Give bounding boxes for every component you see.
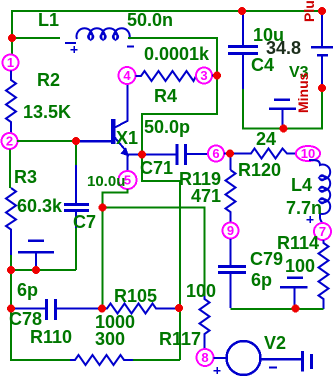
label R114 <box>277 233 319 253</box>
label R119 <box>179 169 221 189</box>
label C4 <box>251 55 274 75</box>
resistor R3 <box>6 150 16 271</box>
svg-text:0.0001k: 0.0001k <box>144 44 210 64</box>
junction dot (242,11) C4 tap <box>238 7 246 15</box>
wire base (blue) <box>76 140 111 143</box>
svg-text:R117: R117 <box>159 329 201 349</box>
junction dot (295.5,308.5) ground tie <box>292 305 300 313</box>
junction dot (36,270) ground tie <box>32 266 40 274</box>
svg-text:4: 4 <box>123 68 131 83</box>
svg-text:100: 100 <box>186 281 216 301</box>
node 5 <box>119 171 137 189</box>
svg-text:10.0u: 10.0u <box>87 173 125 190</box>
label V2 minus mark <box>269 367 277 369</box>
ground symbol near C4 <box>269 100 296 127</box>
svg-text:R110: R110 <box>30 327 72 347</box>
svg-text:50.0n: 50.0n <box>127 10 173 30</box>
svg-text:R114: R114 <box>277 233 319 253</box>
label 10u <box>253 25 284 45</box>
label L1 plus mark <box>71 46 78 53</box>
ground symbol under R3 <box>18 241 54 269</box>
label 7.7n <box>286 198 322 218</box>
label Minus (rotated) <box>295 72 311 113</box>
junction dot (11,270) R3 tee <box>7 266 15 274</box>
svg-text:60.3k: 60.3k <box>17 196 63 216</box>
wire node3 to vertical <box>212 75 217 77</box>
resistor R110 <box>70 355 133 365</box>
label V2 plus mark <box>214 367 221 374</box>
label R2 <box>37 70 60 90</box>
wire node2 to base junction <box>17 140 76 142</box>
junction dot (217,75.5) node3 tie <box>213 72 221 80</box>
node 8 <box>197 349 214 366</box>
label V3 <box>289 64 309 81</box>
resistor R4 <box>136 71 197 81</box>
label R120 <box>238 160 281 180</box>
junction dot (142,154.5) C71 tee <box>138 151 146 159</box>
svg-text:R105: R105 <box>114 286 157 306</box>
svg-text:2: 2 <box>6 134 13 149</box>
node 2 <box>2 133 18 149</box>
wire left drop from top rail <box>11 10 13 55</box>
capacitor C78 <box>11 299 102 320</box>
junction dot (102,308.5) R105 left <box>98 305 106 313</box>
junction dot (76,141) base tee <box>72 137 80 145</box>
label R117 <box>159 329 201 349</box>
svg-text:24: 24 <box>256 129 276 149</box>
label 6p (C79) <box>251 270 272 290</box>
resistor R117 <box>200 296 210 348</box>
label V2 <box>264 333 286 353</box>
svg-text:50.0p: 50.0p <box>144 117 190 137</box>
svg-text:L4: L4 <box>291 175 312 195</box>
resistor R119 <box>226 154 236 223</box>
svg-text:100: 100 <box>285 256 315 276</box>
capacitor C7 <box>64 141 89 270</box>
label 100 (R114) <box>285 256 315 276</box>
svg-text:3: 3 <box>200 68 207 83</box>
battery V3 <box>311 10 333 88</box>
resistor R114 <box>319 240 329 309</box>
label 60.3k <box>17 196 63 216</box>
svg-text:R3: R3 <box>14 167 37 187</box>
label 100 (R117) <box>186 281 216 301</box>
svg-text:6: 6 <box>212 146 219 161</box>
inductor L4 <box>309 160 330 223</box>
svg-text:C71: C71 <box>140 158 173 178</box>
label L4 <box>291 175 312 195</box>
wire C4 bottom loop <box>243 88 322 129</box>
junction dot (12,38) <box>8 34 16 42</box>
svg-text:300: 300 <box>95 329 125 349</box>
svg-text:R4: R4 <box>154 86 177 106</box>
svg-text:7: 7 <box>319 224 326 239</box>
svg-text:X1: X1 <box>116 128 138 148</box>
label 10.0u <box>87 173 125 190</box>
svg-text:10: 10 <box>301 146 315 161</box>
svg-text:C7: C7 <box>73 212 96 232</box>
svg-text:L1: L1 <box>38 10 59 30</box>
wire mid horizontal y=207.5 <box>103 208 205 297</box>
label 13.5K <box>23 102 71 122</box>
junction dot (283.5,128.5) ground tie <box>280 125 288 133</box>
label 50.0n <box>127 10 173 30</box>
svg-text:C4: C4 <box>251 55 274 75</box>
node 7 <box>314 223 331 240</box>
svg-text:6p: 6p <box>17 280 38 300</box>
node 6 <box>208 146 224 162</box>
wire line A lower <box>179 308 181 360</box>
label C78 <box>9 309 42 329</box>
svg-text:V2: V2 <box>264 333 286 353</box>
label X1 <box>116 128 138 148</box>
label 1000 <box>95 312 135 332</box>
label L4 plus mark <box>307 216 314 223</box>
svg-text:8: 8 <box>201 350 208 365</box>
node 1 <box>3 55 19 71</box>
wire left column to C78 row <box>11 270 180 360</box>
wire emitter to C71 row <box>128 154 176 156</box>
resistor R2 <box>6 71 16 134</box>
transistor X1 <box>111 84 129 173</box>
junction dot (322,88) V3 minus <box>318 84 326 92</box>
svg-text:C78: C78 <box>9 309 42 329</box>
label C79 <box>250 249 283 269</box>
label C7 <box>73 212 96 232</box>
junction dot (179,308) R105 right <box>175 304 183 312</box>
label R110 <box>30 327 72 347</box>
capacitor C79 <box>218 239 246 308</box>
ground symbol near R114 <box>280 278 308 307</box>
label R4 <box>154 86 177 106</box>
wire node6 to junction <box>224 153 234 155</box>
resistor R105 <box>102 304 175 314</box>
wire L1 left <box>12 37 60 39</box>
source V2 <box>214 341 312 375</box>
svg-text:C79: C79 <box>250 249 283 269</box>
label R3 <box>14 167 37 187</box>
label Plus (rotated) <box>301 0 317 22</box>
junction dot (102.5,207.5) feedback tee <box>99 204 107 212</box>
svg-text:1: 1 <box>7 55 14 70</box>
svg-text:6p: 6p <box>251 270 272 290</box>
capacitor C71 <box>177 144 208 165</box>
svg-text:9: 9 <box>227 223 234 238</box>
svg-text:7.7n: 7.7n <box>286 198 322 218</box>
resistor R120 <box>230 149 295 159</box>
svg-text:471: 471 <box>191 186 221 206</box>
label R105 <box>114 286 157 306</box>
node 9 <box>223 223 239 239</box>
inductor L1 <box>65 28 130 43</box>
label L1 <box>38 10 59 30</box>
label L1 minus mark <box>127 46 134 48</box>
label 0.0001k <box>144 44 210 64</box>
node 4 <box>119 67 136 84</box>
junction dot (230,153.5) R119 tee <box>226 150 234 158</box>
label C71 <box>140 158 173 178</box>
wire top rail <box>12 10 322 12</box>
label 300 <box>95 329 125 349</box>
capacitor C4 <box>228 10 258 90</box>
junction dot (322,11) V3 tap <box>318 7 326 15</box>
label 50.0p <box>144 117 190 137</box>
wire right ground rail <box>231 308 324 310</box>
svg-text:R2: R2 <box>37 70 60 90</box>
svg-text:Minus: Minus <box>295 72 311 113</box>
svg-text:Plus: Plus <box>301 0 317 22</box>
label 34.8 <box>266 38 301 58</box>
node 3 <box>196 68 212 84</box>
label 6p (C78) <box>17 280 38 300</box>
svg-text:R120: R120 <box>238 160 281 180</box>
wire L1 right to x=217 <box>128 38 217 308</box>
svg-text:13.5K: 13.5K <box>23 102 71 122</box>
wire node5 feedback <box>103 189 128 308</box>
label 471 <box>191 186 221 206</box>
node 10 <box>296 146 320 161</box>
label 24 <box>256 129 276 149</box>
junction dot (11,308.5) C78 tee <box>7 305 15 313</box>
wire y=270 row <box>11 269 76 271</box>
